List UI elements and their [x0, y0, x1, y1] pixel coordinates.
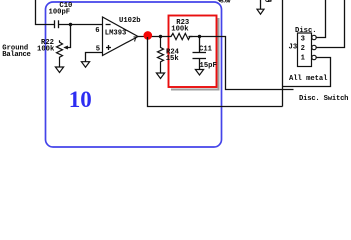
node R24 junction [159, 35, 162, 38]
svg-text:100k: 100k [171, 26, 189, 34]
svg-text:LM393: LM393 [105, 29, 127, 37]
svg-text:All metal: All metal [289, 75, 328, 83]
wire C10 to op-amp minus input [59, 24, 103, 26]
svg-text:6: 6 [95, 27, 99, 35]
resistor R24 [158, 37, 180, 73]
svg-text:15pF: 15pF [200, 62, 217, 70]
svg-text:+8.0V: +8.0V [218, 0, 232, 4]
svg-text:J3: J3 [289, 44, 298, 52]
red box shadow [171, 18, 219, 90]
svg-text:15k: 15k [166, 55, 180, 63]
ground below R22 [55, 67, 63, 73]
wire op-amp output rail [138, 36, 169, 38]
wire long vertical right [282, 0, 284, 107]
ground at op-amp plus input [81, 62, 89, 67]
svg-text:Disc.: Disc. [295, 27, 317, 35]
capacitor C11 [193, 37, 217, 70]
wire input from top [36, 0, 56, 25]
wire down from red dot [148, 37, 283, 107]
blue border [46, 2, 222, 147]
node wiper junction [69, 23, 72, 26]
svg-text:Balance: Balance [2, 51, 31, 59]
resistor R22 [37, 39, 63, 67]
wire wiper of R22 [65, 25, 71, 48]
wire plus input to ground [86, 53, 103, 62]
ground below R24 [156, 73, 164, 79]
svg-text:10: 10 [69, 87, 92, 112]
svg-text:1: 1 [301, 55, 306, 63]
resistor R23 [169, 19, 193, 39]
red box [169, 16, 217, 88]
svg-text:100k: 100k [37, 46, 55, 54]
svg-text:100pF: 100pF [49, 9, 71, 17]
ground top right [260, 0, 262, 9]
node C11 junction [198, 35, 201, 38]
connector J3 [289, 33, 317, 67]
wire J3 pin 2 [316, 0, 344, 48]
op-amp U102b [95, 17, 140, 56]
capacitor C10 [49, 2, 73, 28]
wire J3 pin 3 [316, 0, 325, 38]
svg-text:C14: C14 [265, 0, 272, 4]
svg-text:3: 3 [301, 35, 305, 43]
ground below C11 [195, 70, 203, 76]
wire rail out of red box going down and right [217, 37, 294, 90]
svg-text:2: 2 [301, 45, 305, 53]
wire J3 pin 1 [283, 58, 331, 87]
svg-text:Disc. Switch: Disc. Switch [299, 95, 349, 103]
svg-text:U102b: U102b [119, 17, 141, 25]
svg-text:C11: C11 [199, 45, 213, 53]
node red junction dot [144, 31, 153, 40]
svg-text:7: 7 [133, 37, 137, 45]
